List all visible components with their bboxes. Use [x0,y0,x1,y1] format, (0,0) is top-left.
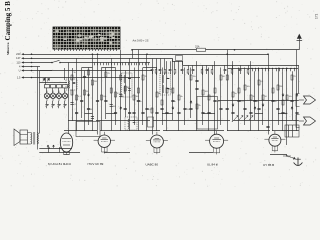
potentiometer bank arrows [234,116,253,121]
svg-text:8k: 8k [159,93,161,95]
antenna symbol [297,34,303,50]
svg-text:15k: 15k [187,109,190,111]
loudspeaker LS [14,129,28,146]
diodes [87,93,298,110]
gang wiring [47,88,65,104]
heater line contact comb [95,63,149,66]
svg-text:127: 127 [16,56,21,60]
svg-text:15k: 15k [193,76,196,78]
output stage network box [197,97,218,130]
detector dashed box T5 [125,117,137,130]
oscillator coil boxes L1-L4 [39,82,67,84]
svg-text:2k: 2k [210,113,212,115]
svg-text:5k: 5k [253,96,255,98]
svg-text:1M: 1M [90,109,93,111]
svg-text:2M: 2M [94,81,97,83]
svg-text:5k: 5k [74,72,76,74]
tuning gang C4 [62,91,67,102]
svg-text:30k: 30k [285,113,288,115]
wave switch arrows [42,78,51,82]
IF transformer T3 (dashed) [160,73,171,95]
pickup jack J2 [296,115,316,128]
tuning gang C2 [50,91,55,102]
svg-text:220: 220 [16,52,21,56]
oscillator coil can (rect) [76,122,100,137]
svg-text:2SA: 2SA [195,46,200,49]
wiring verticals [38,50,297,150]
svg-text:Camping 5 B: Camping 5 B [4,1,12,41]
antenna feed connector [132,50,134,59]
switch contact ticks below block [55,49,117,51]
trimmers under gang [45,105,66,109]
capacitors [70,77,298,128]
svg-text:30k: 30k [247,86,250,88]
coupling box [148,117,154,127]
battery / switch cluster bottom left [39,145,80,153]
output transformer T4 [28,132,39,145]
fuse F1 [197,48,206,51]
svg-text:4n: 4n [181,96,183,98]
tuning gang C1 [44,91,49,102]
chassis ground (anchor) [283,155,302,165]
svg-text:UABC 80: UABC 80 [146,163,159,167]
svg-text:171: 171 [315,13,319,19]
top HT wire to antenna [132,49,299,51]
bus wire A (220V) [32,54,269,56]
svg-text:10k: 10k [289,96,292,98]
stub 4 short terminal [32,66,41,68]
svg-text:U: U [19,68,21,72]
svg-text:2M: 2M [280,86,283,88]
svg-text:5n: 5n [235,93,237,95]
bus wire B (127V) staircase [32,58,173,60]
tube V1 UCH81 (triode-heptode, ellipse) [60,133,72,155]
svg-text:10k: 10k [103,96,106,98]
svg-text:1M: 1M [127,87,130,89]
svg-text:UL 84 til: UL 84 til [207,163,218,167]
tube V4 UL84 [205,131,228,154]
svg-text:110: 110 [16,60,21,64]
band switch contact block S1 (dense dark grid) [53,27,120,49]
svg-text:ITUV UF 89: ITUV UF 89 [88,162,104,166]
bias bus [32,77,141,79]
heater bus with mains switch [32,60,151,63]
svg-text:8k: 8k [140,101,142,103]
IF transformer T2 (dashed) [122,73,133,97]
svg-text:4n: 4n [174,101,176,103]
tube V3 UABC80 [146,132,168,154]
svg-text:2k: 2k [199,105,201,107]
component row under right bus (caps/resistors) [151,59,249,76]
speaker jack J1 [296,94,316,107]
heater wiring under tubes [64,153,288,157]
svg-text:1,5: 1,5 [17,75,21,79]
junction dots on buses [31,49,269,78]
small box top mid [176,56,183,61]
electrolytic capacitor block [285,125,299,137]
tuning gang C3 [56,91,61,102]
svg-text:Ant 5-80 + 2S: Ant 5-80 + 2S [133,39,149,43]
IF transformer T1 (dashed) [66,79,77,90]
tube V2 UF89 [94,132,115,154]
resistors [71,70,293,113]
AVC bus [32,70,153,72]
right heater bus [228,68,298,71]
interconnect horizontals [39,68,299,131]
svg-text:UY 85 B: UY 85 B [263,163,274,167]
svg-text:Minerva: Minerva [6,42,10,55]
input terminals left edge [16,52,31,79]
svg-text:M UCH 81 9HCU: M UCH 81 9HCU [48,162,71,166]
wire to speaker jack [218,100,299,102]
component value annotations [74,72,297,115]
svg-text:5n: 5n [275,101,277,103]
tube V5 UY85 [264,131,285,152]
